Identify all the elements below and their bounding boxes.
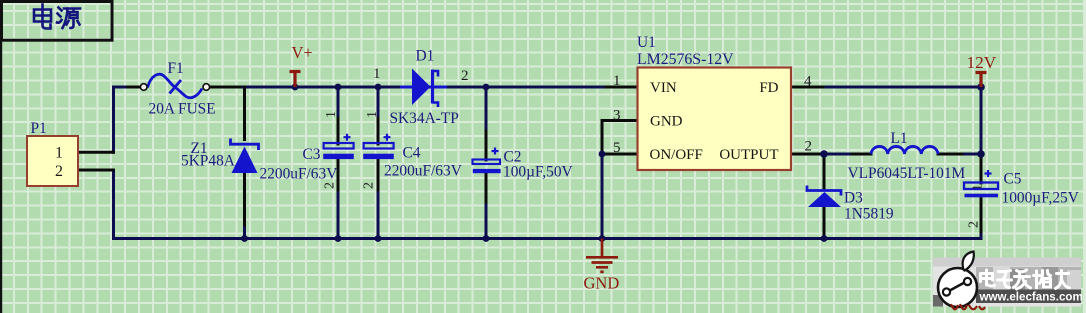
svg-text:1: 1 — [324, 111, 339, 118]
wire C4 branch — [377, 87, 380, 239]
svg-text:2: 2 — [805, 139, 813, 155]
capacitor C4 symbol — [363, 134, 394, 159]
wire Z1 bottom — [243, 224, 246, 239]
svg-text:OUTPUT: OUTPUT — [719, 147, 778, 163]
svg-text:100µF,50V: 100µF,50V — [503, 164, 573, 181]
sheet border — [0, 0, 2, 313]
wire GND drop — [601, 154, 604, 239]
svg-text:U1: U1 — [637, 34, 656, 51]
svg-text:D3: D3 — [844, 190, 863, 207]
svg-text:VLP6045LT-101M: VLP6045LT-101M — [848, 165, 966, 182]
svg-text:2: 2 — [323, 182, 338, 189]
svg-text:1: 1 — [365, 111, 380, 118]
svg-text:2: 2 — [461, 68, 469, 84]
svg-text:12V: 12V — [967, 53, 997, 72]
svg-text:1N5819: 1N5819 — [844, 206, 894, 223]
title text 电源 (drawn strokes) — [34, 5, 80, 29]
watermark logo elecfans — [933, 252, 1083, 308]
svg-text:20A FUSE: 20A FUSE — [149, 101, 216, 118]
svg-text:ON/OFF: ON/OFF — [650, 147, 703, 163]
svg-text:C5: C5 — [1004, 171, 1022, 188]
svg-text:2: 2 — [362, 182, 377, 189]
svg-text:C3: C3 — [303, 146, 321, 163]
wire C2 branch — [485, 87, 488, 239]
svg-text:www.elecfans.com: www.elecfans.com — [979, 291, 1083, 304]
svg-text:LM2576S-12V: LM2576S-12V — [637, 51, 734, 68]
svg-text:1000µF,25V: 1000µF,25V — [1002, 190, 1079, 207]
svg-text:3: 3 — [613, 108, 621, 124]
svg-text:FD: FD — [759, 80, 778, 96]
svg-text:GND: GND — [584, 274, 620, 293]
svg-text:5: 5 — [613, 140, 621, 156]
svg-text:2200uF/63V: 2200uF/63V — [260, 166, 338, 183]
logo circle — [938, 252, 977, 308]
wire top-left corner / left rail — [114, 87, 982, 239]
text labels navy — [31, 34, 1079, 223]
svg-text:D1: D1 — [416, 48, 435, 65]
svg-text:1: 1 — [373, 66, 381, 82]
title box — [2, 2, 113, 41]
capacitor C3 symbol — [323, 134, 354, 159]
chinese brand strokes 电子发烧友 — [981, 270, 1070, 289]
wire C3 branch — [337, 87, 340, 239]
svg-text:2200uF/63V: 2200uF/63V — [384, 163, 462, 180]
U1 pin names — [650, 80, 779, 163]
svg-text:P1: P1 — [31, 120, 47, 137]
svg-text:4: 4 — [804, 74, 812, 90]
power symbol V+ — [290, 72, 301, 88]
TVS diode Z1 symbol — [231, 139, 259, 174]
inductor L1 symbol — [871, 146, 938, 154]
diode D3 symbol — [807, 186, 841, 208]
svg-text:VIN: VIN — [650, 80, 677, 96]
svg-text:1: 1 — [55, 145, 63, 162]
wire bottom rail and P1 lower drop — [114, 170, 982, 239]
power symbol 12V — [976, 73, 987, 88]
svg-text:1: 1 — [613, 73, 621, 89]
svg-text:L1: L1 — [891, 130, 908, 147]
wire FD to 12V — [791, 86, 981, 89]
connector P1 — [27, 136, 78, 186]
svg-text:GND: GND — [650, 114, 683, 130]
svg-text:V+: V+ — [292, 43, 313, 62]
svg-text:2: 2 — [967, 221, 982, 228]
wire top rail — [206, 86, 608, 89]
capacitor C2 symbol — [473, 148, 501, 174]
svg-text:SK34A-TP: SK34A-TP — [390, 110, 459, 127]
IC U1 box — [638, 68, 792, 171]
ground symbol GND — [586, 239, 618, 272]
capacitor C5 symbol — [964, 170, 998, 197]
power net labels — [292, 43, 997, 293]
svg-text:C4: C4 — [403, 145, 421, 162]
black pin stubs — [78, 87, 981, 235]
svg-text:1: 1 — [971, 184, 986, 191]
fuse F1 symbol — [140, 74, 209, 97]
wire 12V drop — [980, 87, 983, 155]
red marks bottom — [951, 304, 985, 309]
svg-text:5KP48A: 5KP48A — [181, 153, 235, 170]
wire output row — [824, 153, 981, 156]
svg-text:2: 2 — [55, 163, 63, 180]
diode D1 symbol — [400, 69, 447, 108]
svg-text:F1: F1 — [168, 60, 184, 77]
